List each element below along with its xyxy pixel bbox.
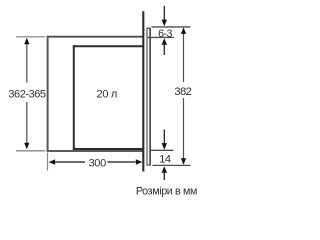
dim 14 upper arrowhead — [162, 143, 167, 150]
dim 362-365 line lower segment — [26, 102, 28, 143]
niche outline left edge — [47, 36, 49, 152]
dim 6-3 lower arrow shaft — [163, 44, 165, 55]
microwave body bottom edge — [73, 148, 143, 150]
dim 382 line upper segment — [183, 34, 185, 83]
dim 382 up arrowhead — [181, 27, 186, 34]
svg-text:382: 382 — [174, 86, 191, 98]
dim 14 upper arrow shaft — [163, 130, 165, 144]
svg-text:362-365: 362-365 — [8, 89, 46, 101]
svg-text:14: 14 — [159, 154, 171, 166]
dim 362-365 bottom extension line — [16, 150, 45, 152]
appliance front frame bar — [147, 28, 150, 165]
frame bar right edge accent — [149, 28, 151, 166]
microwave body top edge — [73, 45, 143, 47]
dim 300 line left segment — [55, 161, 86, 163]
dim 6-3 upper arrow shaft — [163, 6, 165, 21]
dim 362-365 top extension line — [16, 36, 45, 38]
dim 14 top reference line — [151, 149, 174, 151]
dim 382 down arrowhead — [181, 158, 186, 165]
dim 300 left arrowhead — [49, 159, 56, 164]
dim 14 lower arrow shaft — [163, 172, 165, 180]
dim 362-365 up arrowhead — [24, 38, 29, 45]
cabinet front vertical line — [142, 11, 144, 171]
dim 300 line right segment — [108, 161, 136, 163]
microwave body left edge — [73, 45, 75, 150]
dim 6-3 upper arrowhead — [162, 20, 167, 27]
dim 14 bottom reference line — [153, 164, 191, 166]
dim 382 line lower segment — [183, 98, 185, 159]
niche outline bottom edge — [47, 150, 143, 152]
svg-text:20 л: 20 л — [97, 89, 118, 101]
dim 6-3 top reference line — [152, 26, 191, 28]
dim 362-365 down arrowhead — [24, 143, 29, 150]
niche outline top edge — [47, 36, 143, 38]
svg-text:Розміри в мм: Розміри в мм — [136, 186, 197, 198]
dim 6-3 bottom reference line — [147, 36, 174, 38]
svg-text:300: 300 — [88, 157, 106, 169]
svg-text:6-3: 6-3 — [158, 28, 172, 40]
dim 14 lower arrowhead — [162, 166, 167, 173]
dim 362-365 line upper segment — [26, 44, 28, 83]
dim 6-3 lower arrowhead — [162, 38, 167, 45]
dim 300 left extension line — [47, 153, 49, 171]
dim 300 right arrowhead — [136, 159, 143, 164]
